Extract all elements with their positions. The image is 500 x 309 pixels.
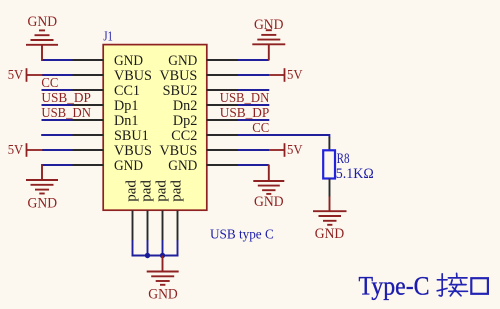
- svg-text:pad: pad: [123, 180, 139, 202]
- pin Dn1 left row5: [73, 119, 104, 121]
- ground top-left: [26, 30, 58, 60]
- wire right row2: [238, 74, 269, 76]
- wire pad4 drop: [177, 240, 179, 256]
- power port 5V left row7: [8, 143, 43, 158]
- wire left row7: [42, 149, 73, 151]
- wire right row6 to R8: [238, 135, 329, 138]
- wire right row8: [238, 164, 269, 166]
- wire left row5: [42, 119, 73, 121]
- pin Dn2 right row4: [207, 104, 239, 106]
- pin VBUS right row2: [207, 74, 239, 76]
- power port 5V left row2: [8, 68, 43, 83]
- svg-text:GND: GND: [168, 158, 197, 174]
- svg-text:Dn1: Dn1: [114, 113, 138, 129]
- wire pad2 drop: [147, 240, 149, 256]
- svg-text:USB_DN: USB_DN: [220, 91, 270, 106]
- svg-text:VBUS: VBUS: [114, 68, 152, 84]
- wire pad bus: [132, 255, 179, 257]
- wire right row7: [238, 149, 269, 151]
- svg-text:GND: GND: [114, 158, 143, 174]
- svg-text:5V: 5V: [8, 143, 24, 158]
- svg-text:VBUS: VBUS: [114, 143, 152, 159]
- svg-text:J1: J1: [103, 28, 113, 43]
- svg-text:pad: pad: [153, 180, 169, 202]
- svg-text:Dn2: Dn2: [173, 98, 197, 114]
- ground bottom-left: [26, 165, 58, 194]
- pin GND left row1: [73, 59, 104, 61]
- pin Dp2 right row5: [207, 119, 239, 121]
- svg-text:pad: pad: [168, 180, 184, 202]
- wire left row1: [41, 59, 72, 61]
- pin GND right row8: [207, 164, 239, 166]
- ground right of chip (row8 right): [253, 165, 284, 194]
- ground bottom-middle (pads): [147, 256, 179, 285]
- pin VBUS left row7: [73, 149, 104, 151]
- pin CC1 left row3: [73, 89, 104, 91]
- wire left row4: [42, 104, 73, 106]
- pin VBUS left row2: [73, 74, 104, 76]
- power port 5V right row7: [269, 143, 303, 158]
- svg-text:USB_DP: USB_DP: [41, 91, 91, 106]
- wire left row8: [41, 164, 72, 166]
- svg-text:CC: CC: [252, 121, 269, 136]
- svg-text:USB type C: USB type C: [210, 226, 274, 241]
- power port 5V right row2: [269, 68, 303, 83]
- pin VBUS right row7: [207, 149, 239, 151]
- svg-text:R8: R8: [337, 151, 350, 167]
- svg-text:GND: GND: [254, 194, 284, 210]
- wire right row1: [238, 59, 269, 61]
- connector J1 body: [103, 45, 207, 211]
- pin SBU2 right row3: [207, 89, 239, 91]
- pin Dp1 left row4: [73, 104, 104, 106]
- svg-text:GND: GND: [168, 53, 197, 69]
- pin GND right row1: [207, 59, 239, 61]
- svg-text:CC1: CC1: [114, 83, 140, 99]
- svg-text:pad: pad: [138, 180, 154, 202]
- wire right row4: [238, 104, 269, 106]
- svg-text:CC2: CC2: [171, 128, 197, 144]
- title hanzi kou (&#21475;): [471, 278, 488, 294]
- ground top-right: [252, 30, 285, 60]
- resistor R8: [328, 137, 330, 150]
- ground under R8: [313, 196, 347, 225]
- title hanzi jie (&#25509;): [437, 273, 467, 296]
- svg-text:GND: GND: [254, 17, 284, 33]
- svg-text:SBU1: SBU1: [114, 128, 149, 144]
- svg-text:CC: CC: [41, 76, 58, 91]
- wire pad1 drop: [132, 240, 134, 256]
- svg-text:GND: GND: [114, 53, 143, 69]
- wire right row3: [238, 89, 269, 91]
- wire left row2: [42, 74, 73, 76]
- pin CC2 right row6: [207, 134, 239, 136]
- junction pad2: [145, 253, 150, 258]
- svg-text:USB_DN: USB_DN: [41, 106, 91, 121]
- svg-text:5.1KΩ: 5.1KΩ: [336, 166, 374, 182]
- svg-text:GND: GND: [148, 286, 178, 302]
- pin SBU1 left row6: [73, 134, 104, 136]
- svg-text:VBUS: VBUS: [159, 68, 197, 84]
- wire right row5: [238, 119, 269, 121]
- pin pad3 bottom: [162, 211, 164, 241]
- svg-text:5V: 5V: [8, 68, 24, 83]
- svg-text:Dp1: Dp1: [114, 98, 138, 114]
- svg-text:VBUS: VBUS: [159, 143, 197, 159]
- svg-text:GND: GND: [28, 14, 58, 30]
- svg-text:5V: 5V: [287, 68, 303, 83]
- pin GND left row8: [73, 164, 104, 166]
- pin pad2 bottom: [147, 211, 149, 241]
- svg-text:Type-C: Type-C: [359, 270, 430, 300]
- svg-text:Dp2: Dp2: [173, 113, 197, 129]
- svg-text:USB_DP: USB_DP: [220, 106, 270, 121]
- svg-text:5V: 5V: [287, 143, 303, 158]
- wire left row3: [42, 89, 73, 91]
- svg-text:SBU2: SBU2: [163, 83, 198, 99]
- pin pad4 bottom: [177, 211, 179, 241]
- svg-text:GND: GND: [315, 226, 345, 242]
- wire left row6: [41, 134, 72, 136]
- junction pad3: [160, 253, 165, 258]
- svg-text:GND: GND: [28, 196, 58, 212]
- pin pad1 bottom: [132, 211, 134, 241]
- wire pad3 drop: [162, 240, 164, 256]
